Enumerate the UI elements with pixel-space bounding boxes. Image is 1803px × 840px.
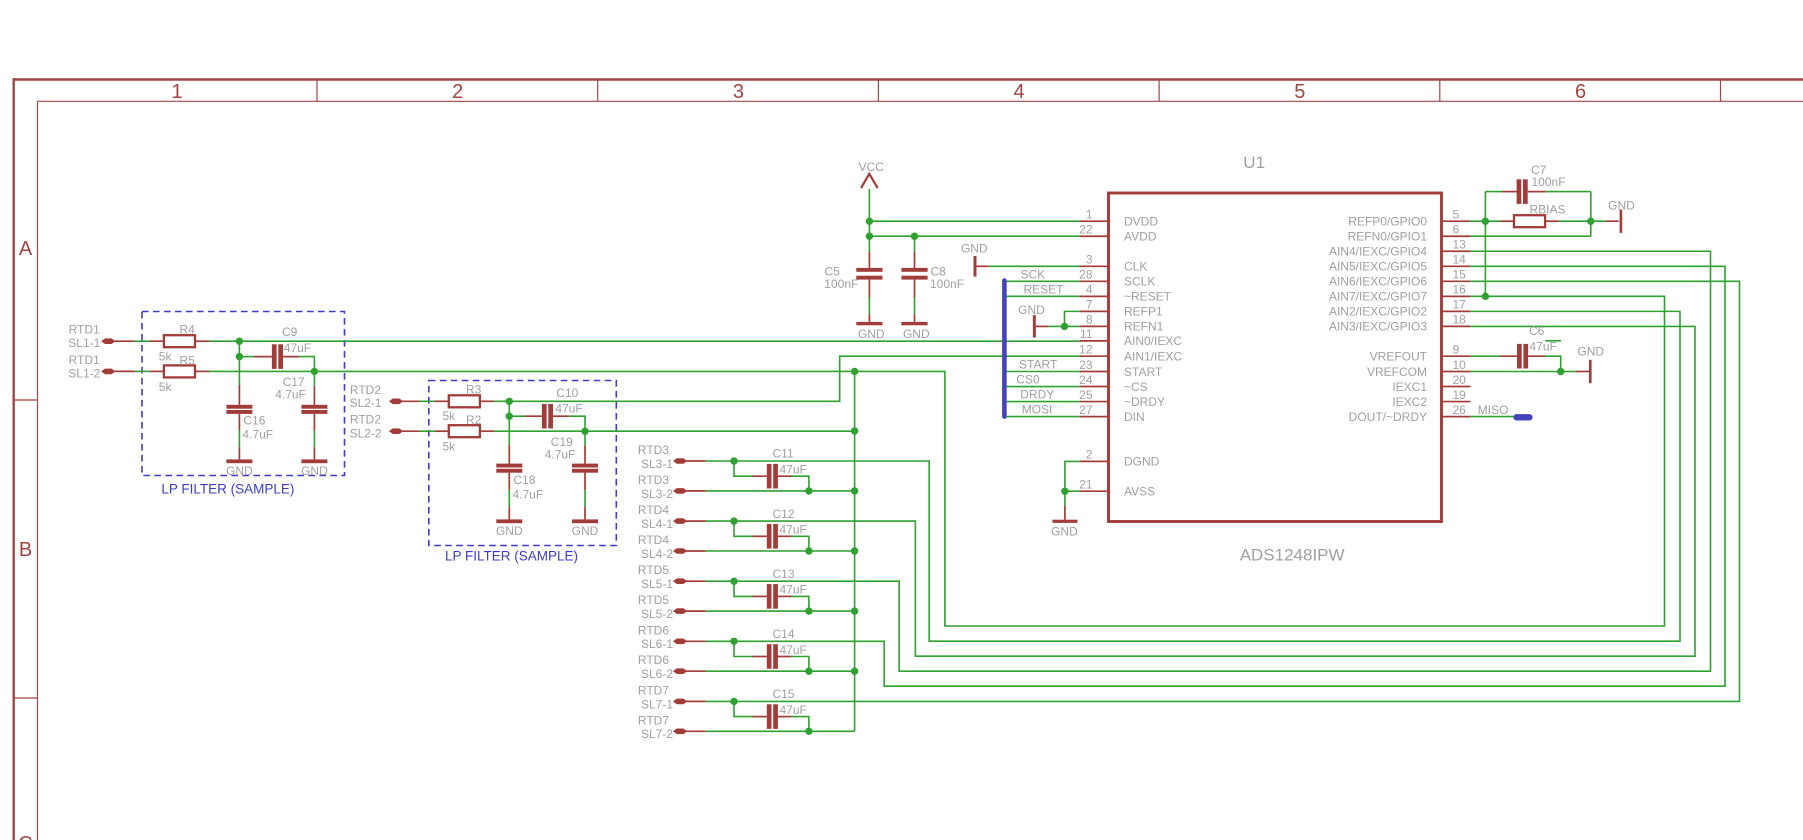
svg-text:9: 9	[1453, 343, 1460, 357]
svg-text:3: 3	[733, 81, 744, 103]
svg-text:SL1-1: SL1-1	[68, 336, 100, 350]
svg-text:4.7uF: 4.7uF	[242, 428, 273, 442]
svg-text:6: 6	[1453, 223, 1460, 237]
svg-text:C12: C12	[773, 507, 795, 521]
svg-text:GND: GND	[1018, 303, 1045, 317]
svg-text:SL4-2: SL4-2	[641, 547, 673, 561]
svg-text:AVDD: AVDD	[1124, 230, 1157, 244]
svg-text:RTD7: RTD7	[638, 683, 669, 697]
svg-text:C9: C9	[282, 325, 298, 339]
svg-text:GND: GND	[572, 524, 599, 538]
svg-text:GND: GND	[301, 464, 328, 478]
svg-text:AIN3/IEXC/GPIO3: AIN3/IEXC/GPIO3	[1329, 320, 1427, 334]
svg-text:4.7uF: 4.7uF	[545, 448, 576, 462]
svg-text:AIN1/IEXC: AIN1/IEXC	[1124, 350, 1182, 364]
svg-text:SL7-2: SL7-2	[641, 727, 673, 741]
svg-text:REFP0/GPIO0: REFP0/GPIO0	[1348, 215, 1427, 229]
svg-text:100nF: 100nF	[1532, 175, 1566, 189]
svg-text:5k: 5k	[443, 409, 457, 423]
svg-text:RTD3: RTD3	[638, 443, 669, 457]
svg-text:SL1-2: SL1-2	[68, 366, 100, 380]
svg-text:13: 13	[1453, 238, 1467, 252]
svg-text:4: 4	[1014, 81, 1025, 103]
svg-text:RTD5: RTD5	[638, 563, 669, 577]
svg-text:11: 11	[1080, 327, 1093, 341]
svg-text:SL6-1: SL6-1	[641, 637, 673, 651]
svg-text:B: B	[19, 539, 32, 561]
svg-text:5: 5	[1453, 208, 1460, 222]
svg-text:RTD3: RTD3	[638, 473, 669, 487]
svg-text:47uF: 47uF	[780, 643, 807, 657]
svg-text:47uF: 47uF	[284, 341, 311, 355]
svg-text:SL5-1: SL5-1	[641, 577, 673, 591]
svg-text:47uF: 47uF	[780, 703, 807, 717]
svg-text:LP FILTER (SAMPLE): LP FILTER (SAMPLE)	[445, 549, 578, 564]
svg-text:GND: GND	[858, 327, 885, 341]
svg-text:12: 12	[1079, 343, 1093, 357]
svg-text:DVDD: DVDD	[1124, 215, 1158, 229]
svg-text:~RESET: ~RESET	[1124, 290, 1172, 304]
svg-text:AIN0/IEXC: AIN0/IEXC	[1124, 334, 1182, 348]
svg-text:100nF: 100nF	[824, 277, 858, 291]
svg-text:RTD6: RTD6	[638, 653, 669, 667]
svg-text:18: 18	[1453, 313, 1467, 327]
svg-text:VREFOUT: VREFOUT	[1370, 350, 1428, 364]
svg-text:DIN: DIN	[1124, 410, 1145, 424]
svg-text:1: 1	[1086, 208, 1093, 222]
svg-text:SL4-1: SL4-1	[641, 517, 673, 531]
svg-text:LP FILTER (SAMPLE): LP FILTER (SAMPLE)	[161, 482, 294, 497]
svg-text:DGND: DGND	[1124, 455, 1160, 469]
svg-text:C16: C16	[243, 413, 265, 427]
svg-text:23: 23	[1079, 358, 1093, 372]
svg-text:C13: C13	[773, 567, 795, 581]
svg-text:SL5-2: SL5-2	[641, 607, 673, 621]
svg-text:DRDY: DRDY	[1020, 388, 1054, 402]
svg-text:SL2-2: SL2-2	[350, 426, 382, 440]
svg-text:100nF: 100nF	[930, 277, 964, 291]
svg-text:REFN0/GPIO1: REFN0/GPIO1	[1348, 230, 1428, 244]
svg-text:7: 7	[1086, 298, 1093, 312]
svg-text:47uF: 47uF	[780, 583, 807, 597]
svg-text:5k: 5k	[159, 380, 173, 394]
svg-text:C15: C15	[773, 687, 795, 701]
svg-text:16: 16	[1453, 283, 1467, 297]
svg-text:CLK: CLK	[1124, 260, 1147, 274]
svg-text:C14: C14	[773, 627, 795, 641]
svg-text:26: 26	[1453, 403, 1467, 417]
svg-text:47uF: 47uF	[780, 463, 807, 477]
svg-text:14: 14	[1453, 253, 1467, 267]
svg-text:2: 2	[1086, 448, 1093, 462]
svg-text:C18: C18	[514, 473, 536, 487]
svg-text:AIN6/IEXC/GPIO6: AIN6/IEXC/GPIO6	[1329, 275, 1427, 289]
svg-text:20: 20	[1453, 373, 1467, 387]
svg-text:U1: U1	[1243, 153, 1265, 172]
svg-text:MISO: MISO	[1478, 403, 1509, 417]
svg-text:C11: C11	[773, 447, 794, 461]
svg-text:8: 8	[1086, 313, 1093, 327]
svg-text:SL7-1: SL7-1	[641, 697, 673, 711]
svg-text:4: 4	[1086, 283, 1093, 297]
svg-text:SCK: SCK	[1021, 268, 1046, 282]
svg-text:IEXC2: IEXC2	[1392, 395, 1427, 409]
svg-text:5k: 5k	[443, 440, 457, 454]
svg-text:SL3-1: SL3-1	[641, 457, 673, 471]
svg-text:2: 2	[452, 81, 463, 103]
svg-text:A: A	[19, 238, 33, 260]
svg-text:CS0: CS0	[1016, 373, 1040, 387]
svg-text:AIN2/IEXC/GPIO2: AIN2/IEXC/GPIO2	[1329, 305, 1427, 319]
svg-text:R3: R3	[466, 383, 482, 397]
svg-text:15: 15	[1453, 268, 1467, 282]
svg-text:R2: R2	[466, 413, 482, 427]
svg-text:IEXC1: IEXC1	[1392, 380, 1427, 394]
svg-text:START: START	[1124, 365, 1163, 379]
svg-text:4.7uF: 4.7uF	[513, 487, 544, 501]
svg-text:C: C	[18, 833, 32, 840]
svg-text:DOUT/~DRDY: DOUT/~DRDY	[1349, 410, 1427, 424]
svg-text:21: 21	[1079, 478, 1093, 492]
svg-text:MOSI: MOSI	[1022, 403, 1053, 417]
svg-text:25: 25	[1079, 388, 1093, 402]
svg-text:RESET: RESET	[1024, 283, 1065, 297]
svg-text:RTD6: RTD6	[638, 623, 669, 637]
svg-text:GND: GND	[1608, 199, 1635, 213]
svg-text:START: START	[1019, 358, 1058, 372]
svg-text:28: 28	[1079, 268, 1093, 282]
svg-text:5: 5	[1294, 81, 1305, 103]
svg-text:RTD4: RTD4	[638, 533, 669, 547]
svg-text:6: 6	[1575, 81, 1586, 103]
svg-text:RTD2: RTD2	[350, 413, 381, 427]
svg-text:22: 22	[1079, 223, 1093, 237]
svg-text:GND: GND	[903, 327, 930, 341]
svg-text:VCC: VCC	[859, 160, 885, 174]
svg-text:RTD1: RTD1	[69, 353, 100, 367]
svg-text:24: 24	[1079, 373, 1093, 387]
svg-text:GND: GND	[1577, 345, 1604, 359]
svg-text:47uF: 47uF	[555, 402, 582, 416]
svg-text:GND: GND	[961, 242, 988, 256]
svg-text:27: 27	[1079, 403, 1093, 417]
svg-text:1: 1	[171, 81, 182, 103]
svg-text:RTD7: RTD7	[638, 713, 669, 727]
svg-text:VREFCOM: VREFCOM	[1367, 365, 1427, 379]
svg-text:C10: C10	[556, 386, 578, 400]
svg-text:19: 19	[1453, 388, 1467, 402]
svg-text:AIN7/IEXC/GPIO7: AIN7/IEXC/GPIO7	[1329, 290, 1427, 304]
svg-text:C6: C6	[1529, 324, 1545, 338]
svg-text:REFP1: REFP1	[1124, 305, 1163, 319]
svg-text:10: 10	[1453, 358, 1467, 372]
svg-text:5k: 5k	[159, 350, 173, 364]
svg-text:SCLK: SCLK	[1124, 275, 1155, 289]
svg-text:RTD1: RTD1	[69, 323, 100, 337]
svg-text:GND: GND	[226, 464, 253, 478]
svg-text:47uF: 47uF	[1530, 340, 1557, 354]
svg-text:SL2-1: SL2-1	[350, 396, 382, 410]
svg-text:47uF: 47uF	[780, 523, 807, 537]
svg-text:RTD4: RTD4	[638, 503, 669, 517]
svg-text:R5: R5	[180, 354, 196, 368]
svg-text:AVSS: AVSS	[1124, 485, 1155, 499]
svg-text:~DRDY: ~DRDY	[1124, 395, 1165, 409]
svg-text:3: 3	[1086, 253, 1093, 267]
svg-text:~CS: ~CS	[1124, 380, 1148, 394]
svg-text:4.7uF: 4.7uF	[275, 387, 306, 401]
svg-text:AIN4/IEXC/GPIO4: AIN4/IEXC/GPIO4	[1329, 245, 1427, 259]
svg-text:R4: R4	[180, 322, 196, 336]
svg-text:AIN5/IEXC/GPIO5: AIN5/IEXC/GPIO5	[1329, 260, 1427, 274]
svg-text:RTD5: RTD5	[638, 593, 669, 607]
svg-text:ADS1248IPW: ADS1248IPW	[1240, 545, 1345, 564]
svg-text:REFN1: REFN1	[1124, 320, 1164, 334]
svg-text:SL6-2: SL6-2	[641, 667, 673, 681]
svg-text:GND: GND	[496, 524, 523, 538]
svg-text:17: 17	[1453, 298, 1467, 312]
svg-text:GND: GND	[1051, 524, 1078, 538]
svg-text:SL3-2: SL3-2	[641, 487, 673, 501]
svg-text:RTD2: RTD2	[350, 383, 381, 397]
